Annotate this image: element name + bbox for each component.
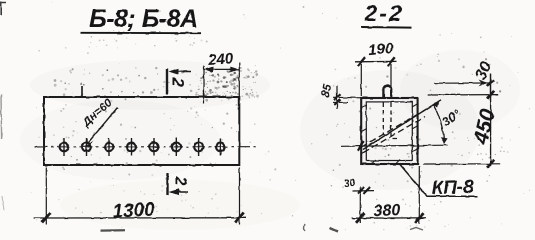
- dimension 30 top-right: arrow blob on upper line: [478, 80, 488, 87]
- hole 8: [216, 138, 225, 156]
- dimension 190: extension left: [360, 64, 362, 96]
- label КП-8 text: [431, 177, 474, 199]
- section outer outline: [361, 98, 417, 164]
- dimension 85: slash ticks: [334, 94, 341, 105]
- svg-text:КП-8: КП-8: [431, 177, 474, 199]
- frame fragment left lower: [2, 196, 4, 210]
- dimension 30 top-right: extension line lower (from section top): [428, 94, 499, 96]
- 30 degree arc: [433, 100, 447, 143]
- label КП-8 leader: [400, 165, 478, 197]
- dimension text 240: [207, 50, 235, 69]
- diagonal leader (solid, to 30 deg arc): [363, 100, 441, 150]
- dimension 1300: extension line right: [239, 168, 241, 225]
- title underline: [81, 32, 202, 34]
- dimension 85: text: [320, 83, 334, 98]
- section marker 2 top: view arrow: [169, 68, 192, 74]
- dimension 30 top-right: text: [472, 59, 495, 83]
- leader line Дн=60: [86, 108, 118, 148]
- dimension 240: extension line right: [238, 63, 240, 98]
- dimension 1300: dimension line: [34, 217, 246, 219]
- dimension 380: extension left: [359, 187, 361, 223]
- section marker 2 bottom: digit: [172, 176, 189, 186]
- dimension text 380: [373, 202, 401, 220]
- tick above beam top edge: [81, 86, 83, 98]
- frame fragment left edge: [0, 94, 3, 139]
- dimension 30 bottom-left: slash ticks: [358, 187, 371, 194]
- dimension 190: dimension line: [355, 60, 397, 62]
- diagonal bar (dashed) A: [362, 107, 432, 148]
- svg-text:30: 30: [343, 177, 356, 191]
- dimension 380: extension right: [418, 166, 420, 224]
- dimension 30 top-right: vertical dim line: [489, 74, 491, 101]
- svg-text:1300: 1300: [112, 199, 156, 222]
- svg-text:240: 240: [207, 50, 235, 69]
- svg-text:380: 380: [373, 202, 401, 220]
- dimension 30 top-right: slash ticks: [487, 80, 493, 98]
- dimension 240: dimension line with arrows: [204, 67, 239, 73]
- loop legs embedded (dashed): [383, 103, 397, 139]
- hole 3: [105, 138, 114, 156]
- dimension 190: slash ticks: [358, 57, 395, 66]
- svg-text:2: 2: [172, 176, 189, 186]
- section marker 2 bottom: cut line: [166, 174, 168, 196]
- dimension 450: slash ticks: [487, 91, 494, 168]
- hole 4: [127, 138, 136, 156]
- dimension 30 bottom-left: dim line: [353, 190, 375, 192]
- svg-text:2: 2: [169, 77, 188, 88]
- title Б-8; Б-8А: [89, 5, 198, 33]
- frame fragment bottom 4: [410, 228, 423, 231]
- beam centerline (dash-dot): [35, 146, 257, 148]
- dimension 1300: slash tick left: [42, 213, 51, 223]
- dimension 1300: slash tick right: [235, 213, 244, 223]
- section inner lines (channel walls): [366, 102, 412, 161]
- dimension text 450: [469, 106, 500, 147]
- hole 6: [172, 138, 181, 156]
- scan speckle noise: [20, 50, 520, 230]
- hole 7: [194, 138, 203, 156]
- dimension 30 bottom-left: text: [343, 177, 356, 191]
- section marker 2 top: digit: [169, 77, 188, 88]
- dimension 30 top-right: extension line upper (from loop top): [434, 82, 490, 84]
- dimension 450: bottom extension line: [423, 163, 500, 165]
- frame fragment bottom 2: [304, 225, 305, 232]
- dimension 240: extension line left: [203, 66, 205, 104]
- hole 2: [82, 138, 91, 156]
- hole 5: [150, 138, 159, 156]
- hole 1: [60, 138, 69, 156]
- dimension 190: extension right: [390, 64, 392, 94]
- beam Б-8 outline: [44, 97, 239, 165]
- dimension 1300: extension line left: [45, 168, 47, 225]
- title 2-2 underline: [361, 26, 411, 29]
- dimension 85: extension lines: [333, 97, 362, 102]
- svg-text:Б-8; Б-8А: Б-8; Б-8А: [89, 5, 198, 33]
- frame fragment bottom 3: [330, 228, 338, 232]
- horizontal reference line for angle: [341, 145, 448, 146]
- dimension text 190: [367, 40, 394, 59]
- title 2-2: [364, 0, 404, 26]
- diagonal bar (dashed) B: [364, 117, 426, 153]
- section marker 2 bottom: view arrow: [169, 189, 189, 195]
- lifting loop U: [383, 85, 391, 98]
- dimension 85: vertical dim line: [336, 86, 338, 110]
- angle text 30deg: [440, 107, 464, 130]
- dimension 380: slash ticks: [356, 213, 424, 223]
- svg-text:190: 190: [367, 40, 394, 59]
- svg-text:2-2: 2-2: [364, 0, 404, 26]
- section marker 2 top: cut line: [166, 69, 168, 95]
- frame fragment top-left: [0, 2, 6, 16]
- wall hatch ticks: [361, 104, 418, 164]
- slash tick on reference line: [358, 141, 364, 151]
- dimension text 1300: [112, 199, 156, 222]
- frame fragment bottom 1: [100, 229, 125, 232]
- dimension 450: vertical dim line: [490, 74, 492, 167]
- dimension 380: dimension line: [352, 217, 427, 219]
- label Дн=60: [80, 97, 115, 130]
